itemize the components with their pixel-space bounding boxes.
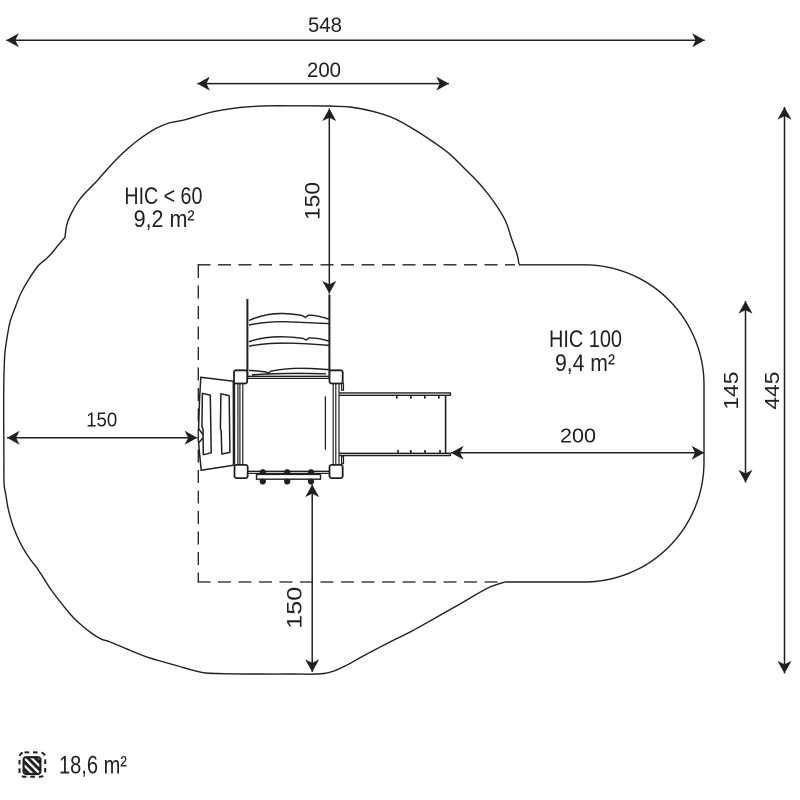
- svg-text:150: 150: [302, 182, 325, 220]
- slide top rail: [340, 392, 451, 394]
- svg-text:200: 200: [560, 425, 596, 448]
- svg-text:9,2 m²: 9,2 m²: [134, 206, 195, 233]
- climber wall body: [199, 377, 234, 470]
- dimension 200 top line: [197, 83, 449, 85]
- slide end board: [445, 395, 447, 453]
- safety zone cloud outline HIC<60: [4, 106, 519, 674]
- dimension 150 left line: [7, 437, 197, 439]
- platform frame top edge: [247, 375, 330, 377]
- dimension 445 line: [784, 107, 786, 674]
- dashed rectangle left edge: [197, 265, 199, 582]
- platform corner post top-right: [330, 370, 343, 383]
- platform corner post bottom-right: [330, 465, 343, 478]
- net band 3 lower: [252, 373, 326, 374]
- legend dashed square: [20, 752, 46, 776]
- platform frame bottom edge: [247, 470, 330, 472]
- platform corner post top-left: [234, 370, 247, 383]
- platform corner post bottom-left: [235, 465, 248, 478]
- net band 2 lower: [249, 343, 329, 346]
- slide bottom rail: [340, 452, 451, 454]
- slide bracket bottom: [342, 457, 344, 464]
- svg-text:145: 145: [720, 372, 743, 410]
- dashed rectangle bottom edge: [198, 581, 505, 583]
- svg-text:200: 200: [307, 59, 341, 82]
- slide bed left edge: [324, 396, 326, 449]
- net band 3 upper: [249, 368, 329, 373]
- climber slat 2: [220, 394, 230, 454]
- step bolts lower row: [260, 478, 266, 484]
- svg-text:150: 150: [284, 587, 307, 629]
- svg-text:9,4 m²: 9,4 m²: [555, 350, 615, 377]
- net band 1 upper: [249, 313, 329, 320]
- safety zone rounded rectangle outline HIC 100: [505, 265, 704, 582]
- bottom step plate: [257, 474, 321, 479]
- climber slat 1: [202, 393, 211, 454]
- step bolts upper row: [260, 469, 266, 475]
- dimension 150 top vertical line: [328, 109, 330, 294]
- slide rail ticks bottom: [397, 450, 399, 453]
- svg-text:445: 445: [761, 372, 784, 410]
- platform frame left edge: [234, 383, 236, 465]
- dashed rectangle top edge: [198, 264, 516, 266]
- dimension 145 line: [745, 301, 747, 483]
- slide rail end caps: [449, 392, 451, 395]
- platform frame right edge: [332, 383, 334, 465]
- svg-text:548: 548: [308, 14, 342, 37]
- svg-text:HIC 100: HIC 100: [549, 326, 622, 353]
- net band 2 upper: [249, 337, 329, 342]
- dimension 548 line: [6, 39, 705, 41]
- net post left: [246, 299, 248, 379]
- net band 1 lower: [249, 322, 329, 325]
- dimension 200 right line: [451, 452, 704, 454]
- slide rail ticks top: [396, 395, 398, 398]
- svg-text:18,6 m²: 18,6 m²: [59, 751, 127, 779]
- slide bracket top: [342, 383, 344, 390]
- svg-text:150: 150: [86, 409, 117, 432]
- legend hatched square: [24, 757, 41, 774]
- dimension 150 bottom vertical line: [311, 485, 313, 673]
- net post right: [328, 295, 330, 380]
